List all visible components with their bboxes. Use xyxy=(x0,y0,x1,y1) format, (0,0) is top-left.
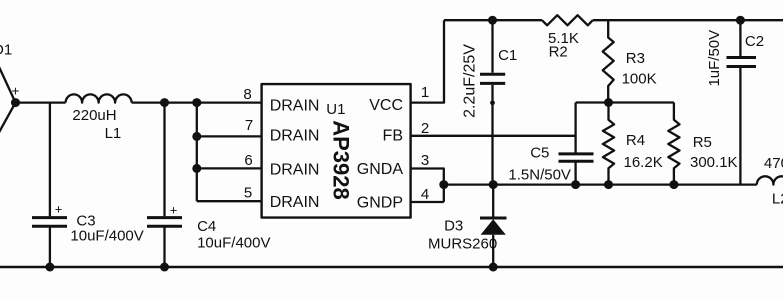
junction D3 anode xyxy=(489,263,498,272)
svg-text:2.2uF/25V: 2.2uF/25V xyxy=(462,44,479,118)
wire: L1 to IC pin 8 xyxy=(132,101,262,103)
svg-text:DRAIN: DRAIN xyxy=(270,162,320,179)
capacitor C3 plates xyxy=(32,218,67,227)
wire to pin 6 xyxy=(197,167,262,169)
junction pin 6 xyxy=(192,164,201,173)
junction C5 bottom xyxy=(571,180,580,189)
capacitor C2 plates xyxy=(727,58,757,67)
svg-text:R3: R3 xyxy=(626,50,645,67)
svg-text:AP3928: AP3928 xyxy=(329,120,354,200)
svg-text:10uF/400V: 10uF/400V xyxy=(197,234,270,251)
svg-text:C4: C4 xyxy=(197,218,216,235)
svg-text:8: 8 xyxy=(243,86,251,103)
junction R5 bottom xyxy=(669,180,678,189)
svg-text:R5: R5 xyxy=(693,134,712,151)
capacitor C1 branch wire xyxy=(491,20,493,184)
resistor R2 xyxy=(542,15,593,25)
junction C1 top xyxy=(488,16,497,25)
junction C3 bottom xyxy=(45,263,54,272)
resistor R4 xyxy=(603,103,614,185)
junction R3 bottom xyxy=(604,98,613,107)
svg-text:10uF/400V: 10uF/400V xyxy=(70,227,143,244)
wire pin 1 stub xyxy=(411,20,444,102)
svg-text:L1: L1 xyxy=(105,125,122,142)
svg-text:GNDA: GNDA xyxy=(357,161,404,178)
svg-text:VCC: VCC xyxy=(369,97,403,114)
junction C4 bottom xyxy=(160,263,169,272)
bottom return rail wire xyxy=(0,266,783,269)
inductor L1 xyxy=(66,94,132,102)
top VCC rail wire xyxy=(444,19,542,21)
junction drain bus top xyxy=(192,98,201,107)
svg-text:D1: D1 xyxy=(0,42,12,59)
svg-text:3: 3 xyxy=(421,152,429,169)
capacitor C5 plates xyxy=(559,154,594,161)
capacitor C3 branch wire xyxy=(49,103,51,267)
stub node on C1 branch xyxy=(490,100,495,105)
resistor R3 xyxy=(603,20,614,102)
capacitor C5 branch wire xyxy=(574,103,576,185)
svg-text:100K: 100K xyxy=(622,70,657,87)
wire to pin 5 xyxy=(197,200,262,202)
svg-text:+: + xyxy=(12,84,20,99)
diode D3 xyxy=(480,185,507,267)
node at bridge + output xyxy=(11,98,20,107)
svg-text:5: 5 xyxy=(244,185,252,202)
svg-text:+: + xyxy=(170,203,178,218)
svg-text:1: 1 xyxy=(421,84,429,101)
pin 3 stub wire xyxy=(411,169,444,203)
svg-text:C1: C1 xyxy=(498,47,517,64)
pin 4 stub wire xyxy=(411,201,444,203)
svg-text:R2: R2 xyxy=(549,43,568,60)
bridge rectifier D1 (partially off-canvas at left) xyxy=(0,63,16,137)
op IC U1 AP3928 box xyxy=(262,84,411,218)
capacitor C1 plates xyxy=(480,74,505,83)
svg-text:DRAIN: DRAIN xyxy=(270,97,320,114)
svg-text:D3: D3 xyxy=(444,217,463,234)
svg-text:+: + xyxy=(55,202,63,217)
svg-text:6: 6 xyxy=(244,152,252,169)
wire to pin 7 xyxy=(197,135,262,137)
inductor L2 (partially off-canvas at right) xyxy=(757,176,783,184)
svg-text:U1: U1 xyxy=(326,101,345,118)
junction C4 top xyxy=(160,98,169,107)
svg-text:L2: L2 xyxy=(772,191,783,208)
junction D3 cathode xyxy=(489,180,498,189)
svg-text:C2: C2 xyxy=(745,33,764,50)
FB node top wire xyxy=(576,101,674,103)
svg-text:16.2K: 16.2K xyxy=(624,154,663,171)
capacitor C2 branch wire xyxy=(739,20,741,184)
junction pin 7 xyxy=(192,132,201,141)
drain bus vertical wire xyxy=(196,103,198,202)
capacitor C4 plates xyxy=(147,218,182,227)
junction C2 top xyxy=(736,16,745,25)
svg-text:C5: C5 xyxy=(530,145,549,162)
svg-text:GNDP: GNDP xyxy=(357,195,403,212)
svg-text:300.1K: 300.1K xyxy=(690,154,738,171)
svg-text:FB: FB xyxy=(383,127,403,144)
svg-text:4: 4 xyxy=(421,186,429,203)
junction pins 3/4 xyxy=(439,180,448,189)
svg-text:220uH: 220uH xyxy=(72,107,116,124)
svg-text:2: 2 xyxy=(421,120,429,137)
wire: bridge to L1 xyxy=(16,101,66,103)
junction R4 bottom xyxy=(604,180,613,189)
switch node rail wire xyxy=(444,183,757,185)
svg-text:R4: R4 xyxy=(626,132,645,149)
svg-text:7: 7 xyxy=(245,117,253,134)
svg-text:470: 470 xyxy=(764,155,783,172)
FB pin 2 wire xyxy=(411,135,576,137)
svg-text:DRAIN: DRAIN xyxy=(270,127,320,144)
svg-text:DRAIN: DRAIN xyxy=(270,194,320,211)
top rail wire right of R2 xyxy=(593,19,783,21)
svg-text:1.5N/50V: 1.5N/50V xyxy=(508,166,571,183)
svg-text:MURS260: MURS260 xyxy=(428,236,497,253)
svg-text:1uF/50V: 1uF/50V xyxy=(706,30,723,87)
capacitor C4 branch wire xyxy=(163,103,165,267)
resistor R5 xyxy=(668,103,679,185)
